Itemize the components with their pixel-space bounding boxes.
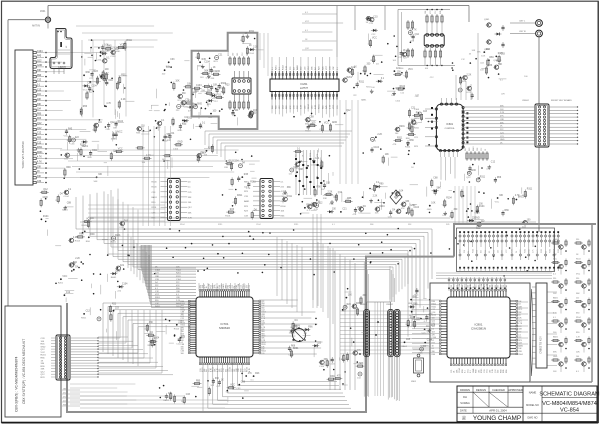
svg-text:C33: C33 xyxy=(518,343,521,345)
svg-text:R311: R311 xyxy=(37,147,43,149)
svg-text:C104: C104 xyxy=(288,355,294,357)
svg-text:R311: R311 xyxy=(81,317,87,319)
svg-text:R104: R104 xyxy=(405,147,411,149)
svg-text:R66: R66 xyxy=(489,285,491,288)
svg-text:R90: R90 xyxy=(432,301,435,303)
svg-text:R90: R90 xyxy=(317,187,322,189)
svg-text:47K: 47K xyxy=(353,214,357,216)
svg-text:C33: C33 xyxy=(373,16,378,18)
svg-text:33K: 33K xyxy=(41,369,45,371)
svg-text:♕: ♕ xyxy=(461,415,466,422)
svg-text:R201: R201 xyxy=(41,355,47,357)
svg-text:R23: R23 xyxy=(181,337,186,339)
svg-text:4.7K: 4.7K xyxy=(188,218,193,220)
svg-text:GND: GND xyxy=(362,70,367,72)
svg-text:R104: R104 xyxy=(576,317,581,319)
svg-text:Q12: Q12 xyxy=(338,192,343,194)
svg-text:BAS1: BAS1 xyxy=(472,146,475,151)
svg-text:R104: R104 xyxy=(281,206,287,208)
svg-text:VCC: VCC xyxy=(326,65,328,70)
svg-text:Q12: Q12 xyxy=(406,51,411,53)
svg-text:R104: R104 xyxy=(576,259,581,261)
svg-text:BAS1: BAS1 xyxy=(402,345,408,348)
svg-text:VCC: VCC xyxy=(553,259,558,261)
svg-text:LA7577: LA7577 xyxy=(300,87,309,90)
svg-text:MODEL NO: MODEL NO xyxy=(526,404,539,407)
svg-text:R90: R90 xyxy=(464,250,466,253)
svg-text:DH: DH xyxy=(463,395,467,399)
svg-text:R45: R45 xyxy=(202,59,207,61)
svg-text:IC601: IC601 xyxy=(446,123,453,126)
svg-text:10K: 10K xyxy=(37,99,42,101)
svg-text:VCC: VCC xyxy=(408,69,413,71)
svg-text:C12: C12 xyxy=(481,148,483,151)
svg-text:4.7K: 4.7K xyxy=(466,92,471,94)
svg-text:R23: R23 xyxy=(37,118,42,120)
svg-text:R23: R23 xyxy=(230,209,235,211)
svg-text:47K: 47K xyxy=(144,329,148,331)
svg-text:R201: R201 xyxy=(432,306,437,308)
svg-text:R90: R90 xyxy=(486,49,491,51)
svg-text:JK01: JK01 xyxy=(40,10,46,13)
svg-text:C12: C12 xyxy=(242,53,244,56)
svg-text:C104: C104 xyxy=(110,56,116,58)
svg-text:2.2K: 2.2K xyxy=(73,237,78,239)
svg-text:VCC: VCC xyxy=(118,132,123,134)
svg-text:R23: R23 xyxy=(518,340,521,342)
svg-text:R311: R311 xyxy=(121,75,127,77)
svg-text:VCC: VCC xyxy=(324,123,329,125)
svg-text:R23: R23 xyxy=(255,373,260,375)
svg-text:10K: 10K xyxy=(385,154,390,156)
svg-text:VCC: VCC xyxy=(467,368,469,373)
svg-text:R311: R311 xyxy=(237,195,243,197)
svg-text:R311: R311 xyxy=(92,150,98,152)
svg-text:GND: GND xyxy=(471,170,476,172)
svg-text:R311: R311 xyxy=(414,128,420,130)
svg-text:R201: R201 xyxy=(37,152,43,154)
svg-text:VCC: VCC xyxy=(357,207,362,209)
svg-text:56K: 56K xyxy=(437,188,442,190)
svg-text:GND: GND xyxy=(122,47,127,49)
svg-text:330: 330 xyxy=(553,278,556,280)
svg-text:R45: R45 xyxy=(296,154,298,157)
svg-text:VCC: VCC xyxy=(64,135,69,137)
svg-text:R104: R104 xyxy=(174,328,180,330)
svg-text:R90: R90 xyxy=(462,370,464,373)
svg-text:C104: C104 xyxy=(249,53,255,55)
svg-text:1K: 1K xyxy=(221,379,224,381)
svg-text:33K: 33K xyxy=(149,322,154,324)
svg-text:C12: C12 xyxy=(86,311,91,313)
svg-text:2.2K: 2.2K xyxy=(328,191,333,193)
svg-text:R66: R66 xyxy=(79,234,84,236)
svg-text:10K: 10K xyxy=(281,211,285,213)
svg-text:R201: R201 xyxy=(524,249,526,253)
svg-text:0.1: 0.1 xyxy=(489,251,491,253)
svg-text:2.2K: 2.2K xyxy=(377,134,382,136)
svg-text:R104: R104 xyxy=(152,187,158,189)
svg-text:CN802: CN802 xyxy=(386,304,394,306)
svg-text:0.1: 0.1 xyxy=(465,370,467,373)
svg-text:C33: C33 xyxy=(252,113,257,115)
svg-text:C33: C33 xyxy=(37,181,42,183)
svg-text:CBX-3(FB/3) : VC-M804/M854/M87: CBX-3(FB/3) : VC-M804/M854/M874 xyxy=(15,356,19,412)
svg-text:CBX SYSTE(2P) : VC-854 DECK ME: CBX SYSTE(2P) : VC-854 DECK MECHA KIT xyxy=(22,339,26,404)
svg-text:C88: C88 xyxy=(309,117,314,119)
svg-text:47K: 47K xyxy=(337,375,342,377)
svg-text:C104: C104 xyxy=(374,147,380,149)
svg-text:R201: R201 xyxy=(58,283,64,285)
svg-text:R66: R66 xyxy=(506,370,508,373)
svg-text:VCC: VCC xyxy=(487,368,489,373)
svg-text:VCC: VCC xyxy=(518,309,523,311)
svg-text:0.1: 0.1 xyxy=(432,348,435,350)
svg-text:VCC: VCC xyxy=(372,38,377,40)
svg-text:M30620: M30620 xyxy=(219,326,230,330)
svg-text:GND: GND xyxy=(168,397,173,399)
svg-text:R201: R201 xyxy=(512,249,514,253)
svg-text:R23: R23 xyxy=(94,71,99,73)
svg-text:C88: C88 xyxy=(299,169,304,171)
svg-text:R90: R90 xyxy=(476,370,478,373)
svg-text:R311: R311 xyxy=(127,40,133,42)
svg-text:100: 100 xyxy=(181,353,184,355)
svg-text:VCC: VCC xyxy=(305,21,310,23)
svg-text:100: 100 xyxy=(498,285,500,288)
svg-text:C104: C104 xyxy=(196,85,202,87)
svg-text:C104: C104 xyxy=(432,315,437,317)
svg-text:GND: GND xyxy=(177,130,182,132)
svg-text:R66: R66 xyxy=(291,346,296,348)
svg-text:R45: R45 xyxy=(465,148,467,151)
svg-text:GND: GND xyxy=(115,51,120,53)
svg-text:C104: C104 xyxy=(204,61,210,63)
svg-text:R90: R90 xyxy=(86,72,91,74)
svg-text:C21: C21 xyxy=(218,54,223,56)
svg-text:R66: R66 xyxy=(489,57,494,59)
svg-text:100: 100 xyxy=(502,250,504,253)
svg-text:VCC: VCC xyxy=(62,276,67,278)
svg-text:C33: C33 xyxy=(170,59,175,61)
svg-text:GND: GND xyxy=(350,73,355,75)
svg-text:2.2K: 2.2K xyxy=(75,258,80,260)
svg-text:1K: 1K xyxy=(37,171,40,173)
svg-text:R311: R311 xyxy=(481,369,483,373)
svg-text:D4: D4 xyxy=(468,251,470,253)
svg-text:56K: 56K xyxy=(342,311,346,313)
svg-text:SUWEA: SUWEA xyxy=(460,401,470,405)
svg-text:R90: R90 xyxy=(500,370,502,373)
svg-text:R23: R23 xyxy=(306,205,311,207)
svg-text:R201: R201 xyxy=(460,249,462,253)
svg-text:D4: D4 xyxy=(516,251,518,253)
svg-text:BAS1: BAS1 xyxy=(518,344,523,347)
svg-text:CN803 TO KEY: CN803 TO KEY xyxy=(540,336,543,354)
svg-text:BAS1: BAS1 xyxy=(474,212,480,215)
svg-text:33K: 33K xyxy=(210,78,214,80)
svg-text:C21: C21 xyxy=(518,320,521,322)
svg-text:330: 330 xyxy=(498,250,500,253)
svg-text:R23: R23 xyxy=(347,304,352,306)
svg-text:R90: R90 xyxy=(469,148,471,151)
svg-text:1K: 1K xyxy=(354,66,357,68)
svg-text:GND: GND xyxy=(473,368,475,373)
svg-text:DWG NO: DWG NO xyxy=(527,417,537,420)
svg-text:R104: R104 xyxy=(446,198,452,200)
svg-text:33K: 33K xyxy=(287,187,292,189)
svg-text:56K: 56K xyxy=(498,64,503,66)
svg-text:C104: C104 xyxy=(442,204,448,206)
svg-text:4.7K: 4.7K xyxy=(412,29,417,31)
svg-text:R23: R23 xyxy=(225,85,230,87)
svg-text:222: 222 xyxy=(576,298,579,300)
svg-text:R311: R311 xyxy=(480,177,486,179)
svg-text:CXA2581N: CXA2581N xyxy=(471,327,486,331)
svg-text:10K: 10K xyxy=(481,56,485,58)
svg-text:GND: GND xyxy=(427,209,432,211)
svg-text:BAS1: BAS1 xyxy=(152,196,158,199)
svg-text:33K: 33K xyxy=(215,378,220,380)
svg-text:1K: 1K xyxy=(213,67,216,69)
svg-text:C104: C104 xyxy=(201,153,207,155)
svg-text:R90: R90 xyxy=(196,380,201,382)
svg-text:C88: C88 xyxy=(67,203,72,205)
svg-text:R45: R45 xyxy=(68,129,73,131)
svg-text:R311: R311 xyxy=(249,31,255,33)
svg-text:R66: R66 xyxy=(83,106,88,108)
svg-text:CHECKED: CHECKED xyxy=(492,388,505,392)
svg-text:R45: R45 xyxy=(503,370,505,373)
svg-text:2.2K: 2.2K xyxy=(119,227,124,229)
svg-text:R45: R45 xyxy=(107,46,112,48)
svg-text:2.2K: 2.2K xyxy=(500,112,505,114)
svg-text:10K: 10K xyxy=(213,84,218,86)
svg-text:C104: C104 xyxy=(37,51,43,53)
svg-text:104: 104 xyxy=(576,356,579,358)
svg-text:DRAWN: DRAWN xyxy=(460,388,470,392)
svg-text:R90: R90 xyxy=(66,167,71,169)
svg-text:R66: R66 xyxy=(410,140,415,142)
svg-text:DESIGN: DESIGN xyxy=(476,388,486,392)
svg-text:R66: R66 xyxy=(497,177,502,179)
svg-text:R90: R90 xyxy=(379,183,384,185)
svg-text:R66: R66 xyxy=(370,224,373,226)
svg-text:R90: R90 xyxy=(37,75,42,77)
svg-text:R201: R201 xyxy=(293,348,299,350)
svg-text:TU001 VCT-3CH5510: TU001 VCT-3CH5510 xyxy=(21,141,25,169)
svg-text:33K: 33K xyxy=(37,176,42,178)
svg-text:R311: R311 xyxy=(472,249,474,253)
svg-text:100: 100 xyxy=(489,370,491,373)
svg-text:GND: GND xyxy=(215,71,220,73)
svg-text:VC-854: VC-854 xyxy=(560,408,579,414)
svg-text:C12: C12 xyxy=(491,162,496,164)
svg-text:R311: R311 xyxy=(541,249,543,253)
svg-text:R66: R66 xyxy=(432,354,435,356)
svg-text:103: 103 xyxy=(478,370,480,373)
svg-text:BAS1: BAS1 xyxy=(553,297,558,300)
svg-text:Q12: Q12 xyxy=(318,202,323,204)
svg-text:R201: R201 xyxy=(550,249,552,253)
svg-text:R90: R90 xyxy=(493,250,495,253)
svg-text:GND: GND xyxy=(197,104,202,106)
svg-text:D4: D4 xyxy=(518,304,520,306)
svg-text:R104: R104 xyxy=(371,60,377,62)
svg-text:GND: GND xyxy=(412,325,417,327)
svg-text:2.2K: 2.2K xyxy=(467,75,472,77)
svg-text:33K: 33K xyxy=(188,197,192,199)
svg-text:47K: 47K xyxy=(248,373,253,375)
svg-text:C88: C88 xyxy=(433,178,438,180)
svg-text:R104: R104 xyxy=(396,88,402,90)
svg-text:R90: R90 xyxy=(90,234,95,236)
svg-text:VCC: VCC xyxy=(576,274,581,276)
svg-text:4.7K: 4.7K xyxy=(37,157,42,159)
svg-text:VCC: VCC xyxy=(495,202,500,204)
svg-text:C12: C12 xyxy=(435,11,437,14)
svg-text:D4: D4 xyxy=(518,315,520,317)
svg-text:BAS1: BAS1 xyxy=(553,336,558,339)
svg-text:BAS1: BAS1 xyxy=(62,208,68,211)
svg-text:103: 103 xyxy=(237,53,239,56)
svg-text:R201: R201 xyxy=(399,126,405,128)
svg-text:BAS1: BAS1 xyxy=(553,238,558,241)
svg-text:0.1: 0.1 xyxy=(432,340,435,342)
svg-text:VCC: VCC xyxy=(155,294,160,296)
svg-text:R45: R45 xyxy=(440,11,442,14)
svg-text:Q12: Q12 xyxy=(37,123,42,125)
svg-text:C12: C12 xyxy=(37,133,42,135)
svg-text:R45: R45 xyxy=(432,343,435,345)
svg-text:R311: R311 xyxy=(87,92,93,94)
svg-text:R311: R311 xyxy=(397,137,403,139)
svg-text:R311: R311 xyxy=(294,224,298,226)
svg-text:GND: GND xyxy=(410,205,415,207)
svg-text:Q12: Q12 xyxy=(495,369,497,373)
svg-text:1K: 1K xyxy=(426,326,429,328)
svg-text:GND: GND xyxy=(41,346,46,348)
svg-text:VCC: VCC xyxy=(329,204,334,206)
svg-text:YOUNG CHAMP: YOUNG CHAMP xyxy=(473,415,521,422)
svg-text:Q12: Q12 xyxy=(415,34,420,36)
svg-text:C33: C33 xyxy=(488,65,493,67)
svg-text:R311: R311 xyxy=(218,224,222,226)
svg-text:C12: C12 xyxy=(37,89,42,91)
svg-text:C104: C104 xyxy=(91,85,97,87)
svg-text:330: 330 xyxy=(498,370,500,373)
svg-text:C21: C21 xyxy=(168,393,173,395)
svg-text:VCC: VCC xyxy=(108,80,113,82)
svg-text:C33: C33 xyxy=(501,53,506,55)
svg-text:APPROVED: APPROVED xyxy=(508,388,523,392)
svg-text:C12: C12 xyxy=(37,80,42,82)
svg-text:C104: C104 xyxy=(459,368,461,373)
svg-text:R45: R45 xyxy=(485,250,487,253)
svg-text:47K: 47K xyxy=(393,144,397,146)
svg-text:VCC: VCC xyxy=(414,295,419,297)
svg-text:VCC: VCC xyxy=(476,284,478,289)
svg-text:Q12: Q12 xyxy=(346,110,351,112)
svg-text:X801: X801 xyxy=(411,381,417,383)
svg-text:R104: R104 xyxy=(152,182,158,184)
svg-text:R45: R45 xyxy=(244,174,249,176)
svg-text:VCC: VCC xyxy=(41,352,46,354)
svg-text:R201: R201 xyxy=(228,51,230,56)
svg-text:BAS1: BAS1 xyxy=(282,193,288,196)
svg-text:BAS1: BAS1 xyxy=(163,399,169,402)
svg-text:C21: C21 xyxy=(411,107,416,109)
svg-text:Q12: Q12 xyxy=(432,320,436,322)
svg-text:R201: R201 xyxy=(83,146,89,148)
svg-text:C12: C12 xyxy=(37,142,42,144)
svg-text:LD/CH: LD/CH xyxy=(58,66,65,69)
svg-text:R201: R201 xyxy=(522,195,528,197)
svg-text:GND: GND xyxy=(553,356,558,358)
svg-text:C104: C104 xyxy=(459,284,461,289)
svg-text:VCC: VCC xyxy=(177,100,182,102)
svg-text:R104: R104 xyxy=(154,337,160,339)
svg-text:56K: 56K xyxy=(411,119,415,121)
svg-text:33K: 33K xyxy=(323,198,327,200)
svg-text:2.2K: 2.2K xyxy=(253,46,258,48)
svg-text:CN602: CN602 xyxy=(522,100,530,102)
svg-text:BAS1: BAS1 xyxy=(155,305,161,308)
svg-text:R45: R45 xyxy=(446,224,449,226)
svg-text:C21: C21 xyxy=(120,265,125,267)
svg-text:47K: 47K xyxy=(401,208,405,210)
svg-text:R104: R104 xyxy=(518,354,523,356)
svg-text:DATE: DATE xyxy=(460,409,467,413)
svg-text:33K: 33K xyxy=(405,201,410,203)
svg-text:C12: C12 xyxy=(66,292,71,294)
svg-text:R201: R201 xyxy=(347,77,353,79)
svg-text:C33: C33 xyxy=(484,370,486,373)
svg-text:NAME: NAME xyxy=(529,391,537,395)
svg-text:BAS1: BAS1 xyxy=(111,276,117,279)
svg-text:GND: GND xyxy=(115,270,120,272)
svg-text:GND: GND xyxy=(332,122,337,124)
svg-text:R311: R311 xyxy=(287,196,293,198)
svg-text:GND: GND xyxy=(37,65,42,67)
svg-text:R45: R45 xyxy=(406,339,411,341)
svg-text:R23: R23 xyxy=(112,304,117,306)
svg-text:SCHEMATIC DIAGRAM: SCHEMATIC DIAGRAM xyxy=(539,392,600,398)
svg-text:56K: 56K xyxy=(359,363,364,365)
svg-text:4.7K: 4.7K xyxy=(106,103,111,105)
svg-text:VCC: VCC xyxy=(230,385,235,387)
svg-text:104: 104 xyxy=(481,250,483,253)
svg-text:C88: C88 xyxy=(477,148,479,151)
svg-text:ANT IN: ANT IN xyxy=(32,25,40,28)
svg-text:C88: C88 xyxy=(518,351,521,353)
svg-text:R45: R45 xyxy=(506,285,508,288)
svg-text:R104: R104 xyxy=(479,206,485,208)
svg-text:2.2K: 2.2K xyxy=(121,99,126,101)
svg-text:33K: 33K xyxy=(188,212,192,214)
svg-text:2.2K: 2.2K xyxy=(373,196,378,198)
svg-text:R90: R90 xyxy=(37,138,42,140)
svg-text:R66: R66 xyxy=(347,198,352,200)
svg-text:4.7K: 4.7K xyxy=(195,57,200,59)
svg-text:10K: 10K xyxy=(103,52,107,54)
svg-text:VCC: VCC xyxy=(83,89,88,91)
svg-text:10K: 10K xyxy=(431,203,436,205)
svg-text:2.2K: 2.2K xyxy=(246,188,251,190)
svg-text:BAS1: BAS1 xyxy=(296,64,299,70)
svg-text:R66: R66 xyxy=(505,210,510,212)
svg-text:C88: C88 xyxy=(87,83,92,85)
